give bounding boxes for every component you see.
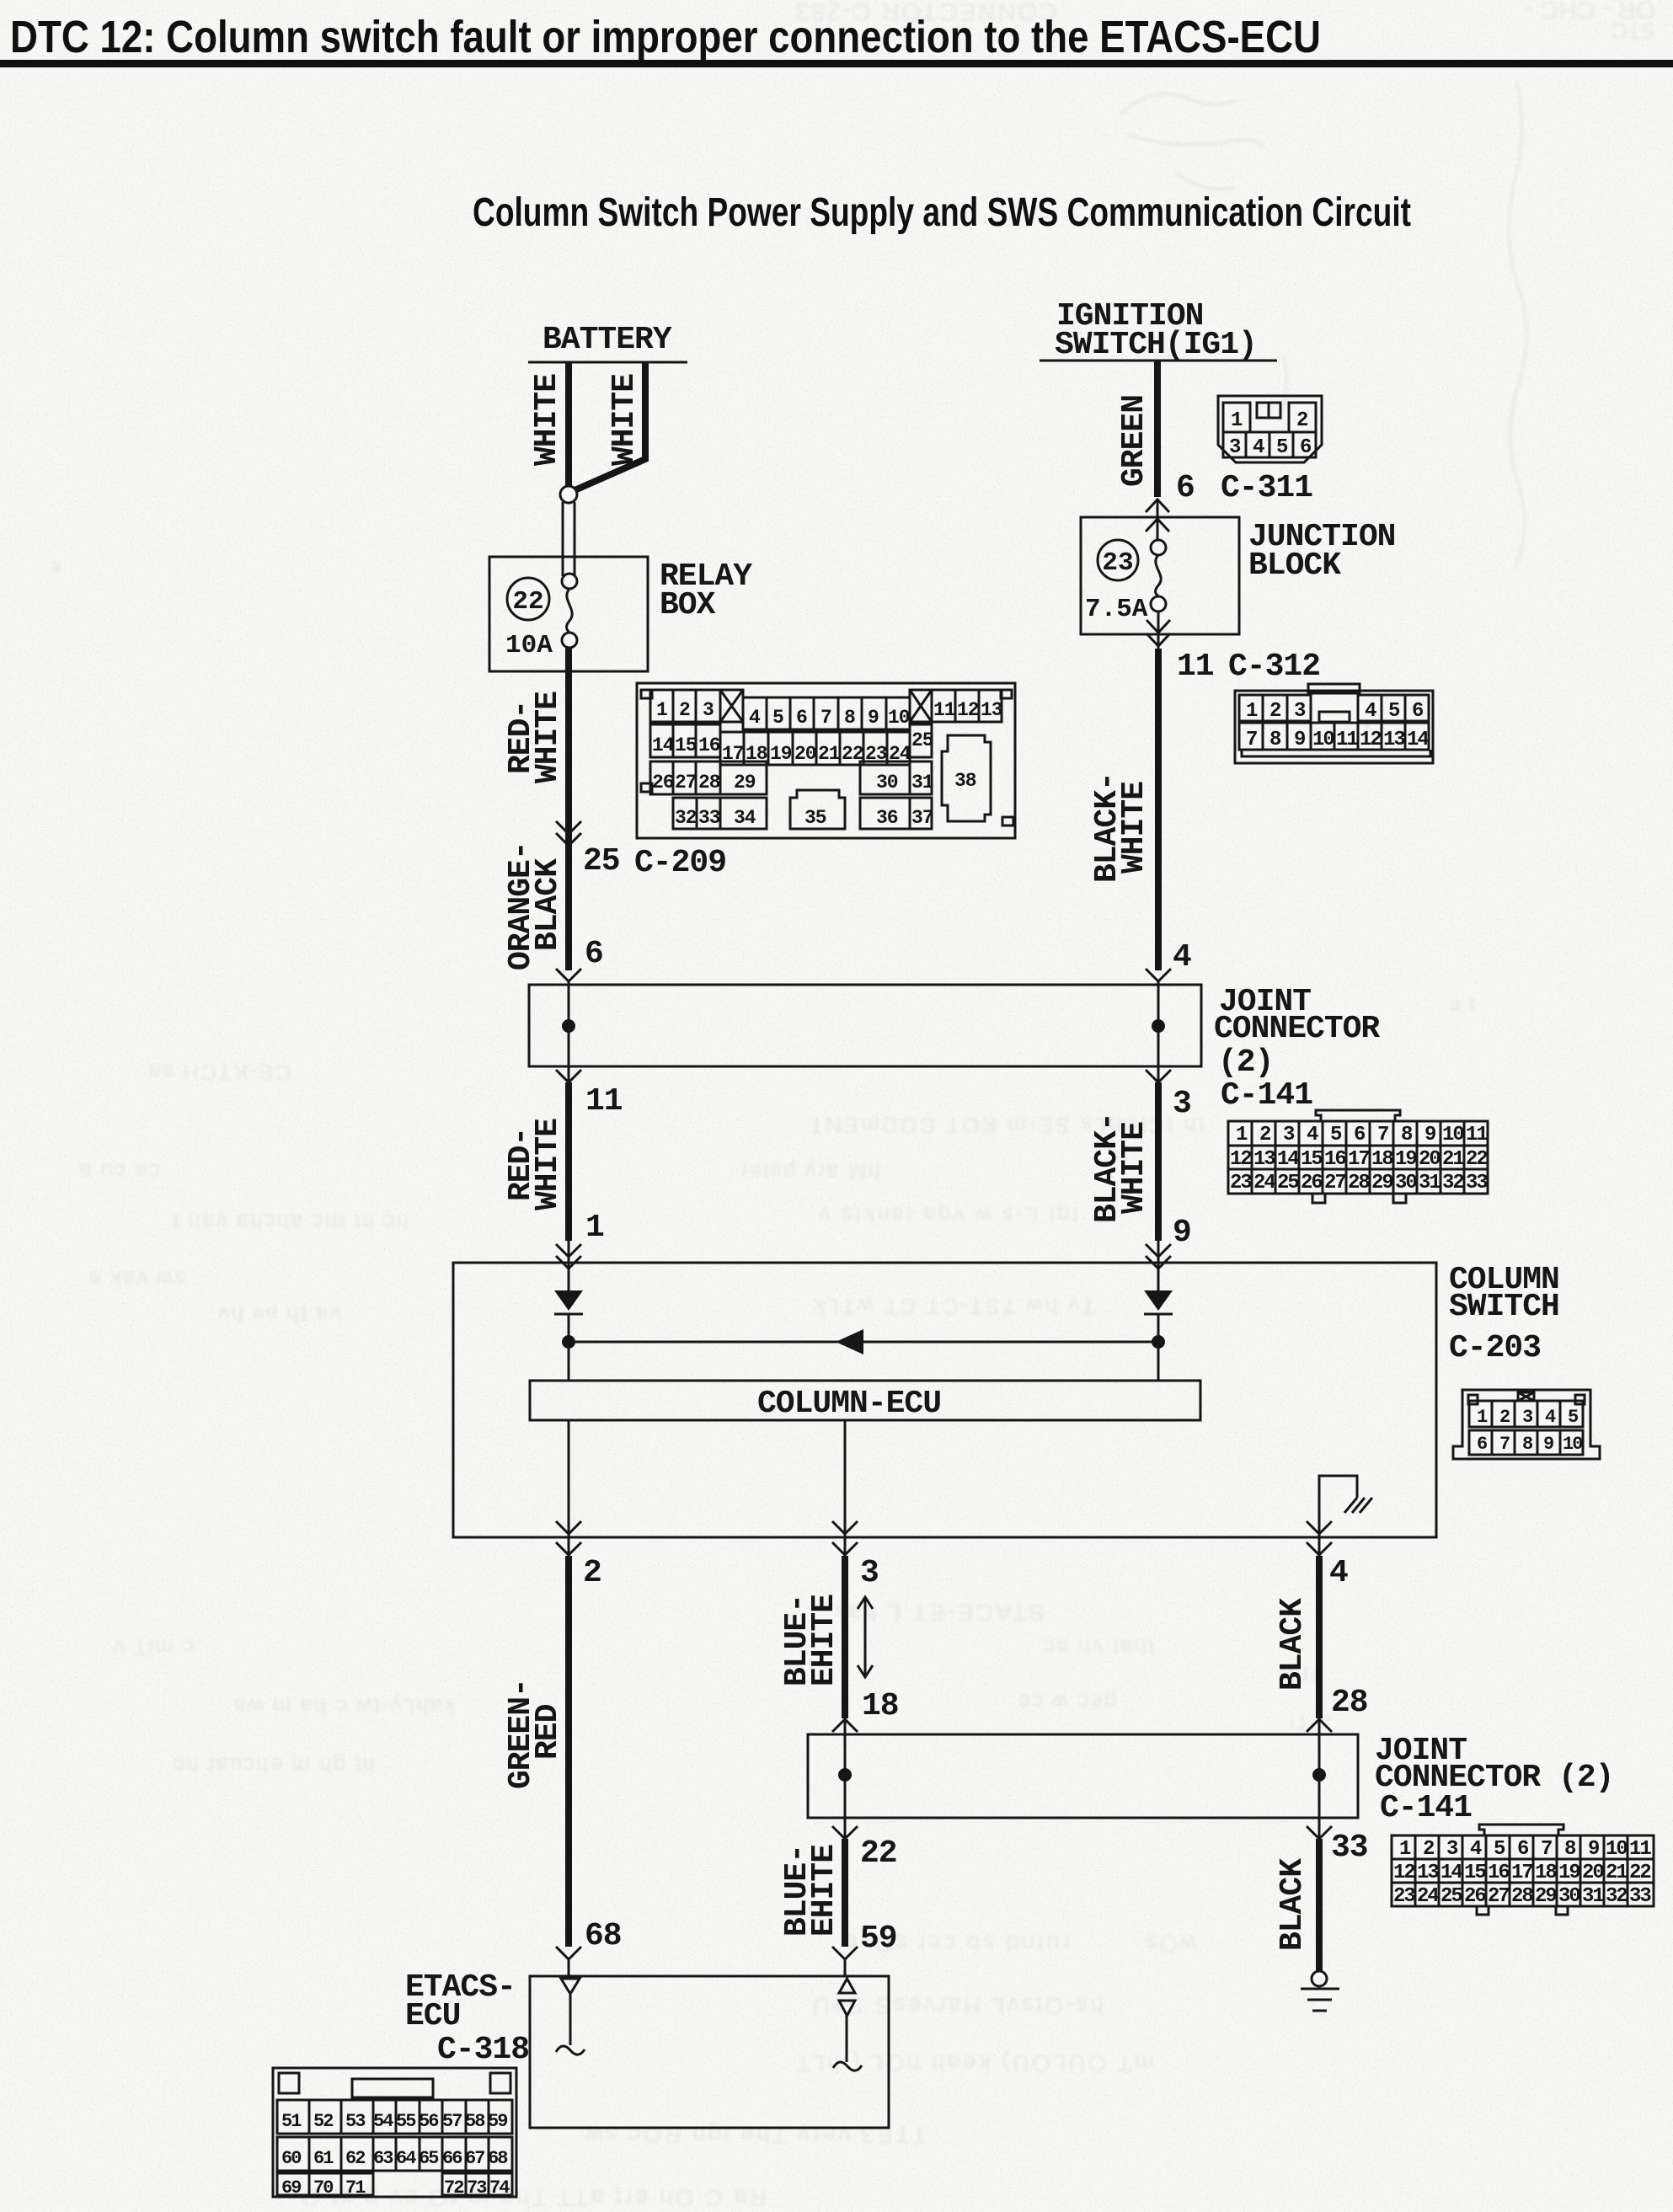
diode right [1144,1290,1173,1311]
svg-text:31: 31 [1582,1885,1604,1908]
svg-text:12: 12 [957,699,979,721]
svg-text:13: 13 [981,699,1002,721]
svg-text:3: 3 [1173,1086,1191,1122]
svg-text:STC: STC [1612,19,1655,44]
svg-text:11: 11 [1629,1838,1651,1861]
svg-text:2: 2 [583,1555,601,1591]
X box 2 [910,690,932,722]
svg-text:22: 22 [1629,1862,1650,1884]
svg-text:71: 71 [345,2177,366,2199]
svg-text:27: 27 [675,772,697,793]
svg-text:22: 22 [860,1835,897,1872]
svg-text:30: 30 [1395,1172,1417,1194]
junction dot left on bus [562,1335,575,1349]
junction dot [1312,1768,1326,1782]
svg-text:11: 11 [1177,649,1214,685]
svg-text:ECU: ECU [405,1998,460,2034]
fuse number circle 22 [507,578,549,620]
svg-text:69: 69 [281,2177,301,2199]
wire junction block to joint connector (BLACK-WHITE) [1155,649,1162,970]
svg-text:8: 8 [1401,1124,1413,1146]
svg-text:EHITE: EHITE [806,1595,842,1686]
svg-text:Column Switch Power Supply and: Column Switch Power Supply and SWS Commu… [473,190,1411,235]
svg-text:2: 2 [1259,1124,1270,1146]
svg-text:COLUMN-ECU: COLUMN-ECU [757,1386,941,1422]
connector C-311 pin diagram [1218,396,1322,462]
svg-text:RED: RED [530,1704,566,1760]
svg-text:c miT v: c miT v [112,1635,194,1660]
wire battery left (WHITE) [565,362,572,487]
svg-text:6: 6 [1176,470,1195,506]
fuse 23 wavy element [1156,555,1162,596]
svg-text:10A: 10A [505,631,553,660]
connector C-209 double chevron [556,821,581,846]
wire fuse to block bottom [1157,612,1160,650]
svg-text:6: 6 [1517,1838,1529,1861]
svg-text:8: 8 [1522,1434,1533,1455]
svg-text:70: 70 [313,2177,333,2199]
svg-text:7: 7 [1499,1434,1510,1455]
svg-text:CONNECTOR: CONNECTOR [1214,1011,1380,1047]
svg-text:1: 1 [1477,1407,1488,1428]
svg-text:2: 2 [1296,409,1307,432]
svg-text:a: a [51,555,63,578]
fuse 23 symbol top circle [1151,540,1166,555]
svg-text:va th av hv: va th av hv [216,1302,341,1328]
joint connector (2) box lower [808,1734,1358,1818]
direction arrow on bus [836,1329,863,1354]
ETACS-ECU box [530,1976,889,2128]
svg-text:28: 28 [1348,1172,1370,1194]
wire into diode left [568,1263,570,1291]
svg-text:6: 6 [1354,1124,1366,1146]
svg-text:C-209: C-209 [634,845,726,881]
svg-text:33: 33 [1331,1830,1368,1866]
svg-text:BATTERY: BATTERY [543,322,672,358]
svg-text:CE-KTCH sa: CE-KTCH sa [147,1060,291,1085]
row2 pins 17-24 (offset) [720,732,910,765]
svg-text:C-312: C-312 [1228,649,1320,685]
svg-text:8: 8 [844,707,855,729]
svg-text:10: 10 [1442,1124,1464,1146]
svg-text:14: 14 [1440,1862,1462,1884]
svg-text:18: 18 [1535,1862,1557,1884]
chevrons into column switch right [1146,1244,1171,1269]
connector C-312 pin diagram [1235,684,1433,763]
svg-text:6: 6 [585,936,603,972]
svg-text:26: 26 [1464,1885,1486,1908]
svg-text:7.5A: 7.5A [1085,595,1148,624]
wire relay box to C-209 (RED-WHITE) [565,648,572,846]
ground branch wire [1319,1476,1357,1537]
svg-text:55: 55 [396,2111,416,2132]
svg-text:14: 14 [1277,1148,1299,1171]
svg-text:5: 5 [1388,700,1400,723]
svg-text:DTC 12: Column switch fault or: DTC 12: Column switch fault or improper … [10,12,1321,62]
svg-text:sw vak e: sw vak e [87,1267,185,1292]
battery bus bar [528,361,687,364]
junction dot right on bus [1152,1335,1165,1349]
svg-text:10: 10 [1606,1838,1628,1861]
wire 22 to 59 (BLUE-EHITE) [842,1839,848,1947]
svg-text:9: 9 [1543,1434,1553,1455]
key tab [1319,712,1350,722]
svg-text:20: 20 [1582,1862,1604,1884]
svg-text:68: 68 [488,2148,508,2169]
svg-text:51: 51 [281,2111,302,2132]
svg-text:12: 12 [1360,729,1381,751]
svg-text:23: 23 [1230,1172,1252,1194]
wire through joint connector right [1157,985,1160,1066]
wire 33 to ground (BLACK) [1316,1839,1323,1971]
pin 34 box [720,798,767,829]
junction dot [838,1768,852,1782]
chevron below joint box 2 left [832,1826,858,1839]
pin 30 box [860,761,910,794]
svg-text:6: 6 [1412,700,1424,723]
earth ground symbol [1301,1989,1339,2011]
svg-text:5: 5 [1330,1124,1342,1146]
COLUMN-ECU box [530,1381,1200,1420]
wire C-209 to joint connector (ORANGE-BLACK) [565,846,572,970]
svg-text:28: 28 [698,772,720,793]
svg-text:27: 27 [1324,1172,1345,1194]
row1 pins 4-6 [1358,695,1429,721]
svg-text:18: 18 [862,1688,899,1724]
svg-text:52: 52 [313,2111,333,2132]
row1 pins 1-3 [650,690,673,722]
fuse 23 symbol bottom circle [1151,596,1166,612]
svg-text:32: 32 [675,807,697,829]
svg-text:32: 32 [1442,1172,1463,1194]
svg-text:C-141: C-141 [1380,1790,1472,1826]
svg-text:4: 4 [1329,1555,1348,1591]
svg-text:4: 4 [1365,700,1376,723]
chevrons at pin 4 exit [1307,1521,1332,1555]
connector C-141 pin diagram (first) [1228,1110,1488,1203]
svg-text:a t: a t [1449,993,1477,1016]
svg-text:3: 3 [1522,1407,1533,1428]
svg-text:30: 30 [876,772,898,793]
svg-text:18: 18 [1371,1148,1393,1171]
svg-text:59: 59 [488,2111,507,2132]
svg-text:BLOCK: BLOCK [1248,548,1341,584]
svg-text:14: 14 [652,735,675,756]
chevron into joint connector 2 right (up) [1307,1719,1332,1732]
svg-text:1: 1 [656,699,667,721]
bidirectional arrow [858,1597,873,1677]
svg-text:34: 34 [734,807,756,829]
svg-text:15: 15 [1301,1148,1323,1171]
svg-text:74: 74 [489,2177,510,2199]
svg-text:4: 4 [1173,939,1191,975]
svg-text:hs-OtsvL HarvesS SeU: hs-OtsvL HarvesS SeU [810,1993,1104,2019]
chevron below joint box 2 right [1307,1826,1332,1839]
svg-text:14: 14 [1407,729,1429,751]
svg-text:4: 4 [1470,1838,1482,1861]
svg-text:20: 20 [794,743,816,765]
svg-text:27: 27 [1488,1885,1509,1908]
svg-text:4: 4 [1253,436,1264,459]
svg-text:33: 33 [1629,1885,1651,1908]
svg-text:WHITE: WHITE [530,1119,566,1210]
svg-text:9: 9 [1294,729,1305,751]
junction dot left [562,1019,575,1033]
connector C-209 pin diagram [637,683,1015,838]
svg-text:19: 19 [1395,1148,1416,1171]
svg-text:4: 4 [1545,1407,1556,1428]
svg-text:7: 7 [820,707,831,729]
svg-text:15: 15 [675,735,697,756]
chevron into joint connector (right) [1146,969,1171,981]
svg-text:2: 2 [1499,1407,1510,1428]
svg-text:that vh ac: that vh ac [1042,1635,1154,1660]
svg-text:C-311: C-311 [1221,470,1312,506]
svg-text:73: 73 [467,2177,487,2199]
connector C-318 pin diagram [273,2068,516,2199]
fuse number circle 23 [1098,540,1138,580]
svg-text:5: 5 [1568,1407,1579,1428]
X box [720,690,743,722]
svg-text:53: 53 [345,2111,366,2132]
svg-text:29: 29 [1535,1885,1556,1908]
ignition bus bar [1040,360,1277,362]
wire ignition to junction block (GREEN) [1154,361,1161,497]
wire battery right (WHITE) with diagonal [573,362,645,491]
svg-text:6: 6 [1477,1434,1487,1455]
wire ECU to pin 2 [568,1420,570,1537]
svg-text:4: 4 [1307,1124,1318,1146]
joint connector (2) C-141 box [529,985,1201,1066]
svg-text:hc ht thc ahcha vah t: hc ht thc ahcha vah t [171,1210,409,1235]
svg-text:31: 31 [911,772,933,793]
inner bottom line [1242,750,1430,756]
svg-text:.: . [244,740,252,763]
row4 pins 32-33 [673,798,720,829]
svg-text:60: 60 [281,2148,301,2169]
pin 25 box [910,724,932,757]
svg-text:31: 31 [1419,1172,1440,1194]
svg-text:10: 10 [888,707,910,729]
svg-text:36: 36 [876,807,898,829]
svg-text:7: 7 [1246,729,1257,751]
svg-text:Tv hw TST-CT CT wTLk: Tv hw TST-CT CT wTLk [811,1294,1095,1319]
svg-text:58: 58 [465,2111,485,2132]
chassis ground symbol [1344,1498,1372,1513]
svg-text:19: 19 [1558,1862,1579,1884]
svg-text:SWITCH: SWITCH [1449,1289,1559,1325]
svg-text:9: 9 [1424,1124,1435,1146]
svg-text:7: 7 [1377,1124,1388,1146]
svg-text:29: 29 [1371,1172,1392,1194]
svg-text:8: 8 [1269,729,1281,751]
svg-text:TTE3 very The ign ROc sw: TTE3 very The ign ROc sw [583,2122,927,2148]
row1 pins 4-10 (offset) [743,697,910,729]
svg-text:BLACK: BLACK [530,858,566,951]
chevron into joint connector 2 (up) [832,1719,858,1732]
ETACS pin 68 symbol (female) [561,1979,580,1994]
svg-text:37: 37 [911,807,933,829]
svg-text:4: 4 [749,707,761,729]
svg-text:62: 62 [345,2148,365,2169]
svg-text:57: 57 [442,2111,462,2132]
chevron into joint connector [556,969,581,981]
ground terminal circle [1312,1971,1327,1986]
connector C-312 double chevron (down) [1147,620,1170,646]
diode left [554,1290,583,1311]
svg-text:61: 61 [313,2148,334,2169]
pin 31 box [910,761,932,794]
chevrons into column switch left [556,1244,581,1269]
svg-text:25: 25 [583,843,620,879]
svg-text:28: 28 [1511,1885,1533,1908]
svg-text:3: 3 [1294,700,1306,723]
svg-text:10: 10 [1563,1434,1582,1455]
wire ECU to pin 3 [844,1420,847,1537]
chevron into ETACS right [832,1947,858,1959]
svg-text:GREEN: GREEN [1116,395,1152,487]
svg-text:WHITE: WHITE [530,692,566,783]
svg-text:5: 5 [772,707,783,729]
svg-text:BLACK: BLACK [1275,1858,1311,1951]
svg-text:16: 16 [1324,1148,1346,1171]
svg-text:15: 15 [1464,1862,1486,1884]
svg-text:16: 16 [1488,1862,1510,1884]
svg-text:12: 12 [1393,1862,1414,1884]
row2 pins 14-16 [650,724,720,757]
svg-text:72: 72 [444,2177,463,2199]
svg-text:kahLy-tw c ha m wa: kahLy-tw c ha m wa [232,1694,455,1719]
connector C-311 double chevron (up) [1146,500,1169,532]
svg-text:5: 5 [1276,436,1288,459]
wire into diode right [1157,1263,1160,1291]
svg-text:65: 65 [419,2148,439,2169]
wire pin4 to joint connector (BLACK) [1316,1556,1323,1718]
row 60-68 [277,2137,512,2171]
svg-text:17: 17 [1348,1148,1369,1171]
svg-text:66: 66 [442,2148,462,2169]
svg-text:C-203: C-203 [1449,1330,1541,1366]
svg-text:56: 56 [419,2111,438,2132]
svg-text:5: 5 [1494,1838,1505,1861]
node junction circle above relay box [560,486,577,503]
svg-text:7: 7 [1541,1838,1552,1861]
svg-text:1: 1 [1236,1124,1248,1146]
wire joint to column switch (BLACK-WHITE) [1155,1082,1162,1241]
svg-text:11: 11 [1336,729,1358,751]
pin 37 box [910,798,932,829]
svg-text:1: 1 [1399,1838,1411,1861]
row2 pins 7-14 [1239,723,1429,750]
svg-text:25: 25 [1277,1172,1299,1194]
svg-text:21: 21 [818,743,840,765]
svg-text:22: 22 [512,587,543,617]
svg-text:2: 2 [1423,1838,1434,1861]
svg-text:1: 1 [585,1210,604,1246]
svg-text:33: 33 [1466,1172,1488,1194]
svg-text:21: 21 [1442,1148,1464,1171]
svg-text:16: 16 [698,735,720,756]
svg-text:29: 29 [734,772,756,793]
svg-text:22: 22 [1466,1148,1487,1171]
svg-text:67: 67 [465,2148,484,2169]
svg-text:BLACK: BLACK [1275,1598,1311,1691]
svg-text:11: 11 [933,699,955,721]
svg-text:26: 26 [652,772,674,793]
svg-text:6: 6 [796,707,807,729]
svg-text:ca cu a: ca cu a [78,1159,160,1184]
connector C-141 pin diagram (second) [1392,1825,1654,1915]
junction dot right [1152,1019,1165,1033]
ETACS pin 59 symbol (male pair) [839,1979,855,1993]
svg-text:SWITCH(IG1): SWITCH(IG1) [1055,327,1257,363]
chevron below joint box right [1146,1070,1171,1082]
svg-text:tqt L-s w vqa tankts v: tqt L-s w vqa tankts v [817,1203,1078,1228]
svg-text:3: 3 [1283,1124,1295,1146]
svg-text:63: 63 [373,2148,393,2169]
svg-text:3: 3 [860,1555,879,1591]
svg-text:EHITE: EHITE [806,1845,842,1937]
wire into fuse 23 [1157,522,1159,540]
svg-text:hM ary pster: hM ary pster [739,1159,881,1184]
svg-text:WHITE: WHITE [1116,782,1152,874]
svg-text:2: 2 [1269,700,1280,723]
row 51-59 [277,2100,512,2134]
column switch C-203 box [453,1263,1436,1537]
fuse 22 symbol top circle [562,574,577,589]
svg-text:23: 23 [1102,548,1133,578]
svg-text:17: 17 [1511,1862,1532,1884]
svg-text:11: 11 [585,1083,623,1119]
wire diode right to ECU [1157,1314,1160,1381]
svg-text:ht gh m ehcuat hc: ht gh m ehcuat hc [172,1753,375,1778]
row1 pins 1-3 [1239,695,1311,721]
svg-text:59: 59 [860,1921,897,1957]
connector C-203 pin diagram [1453,1390,1600,1459]
row 69-74 [277,2173,373,2195]
svg-text:9: 9 [1588,1838,1599,1861]
svg-text:12: 12 [1230,1148,1251,1171]
relay box outline [489,557,648,671]
wire through joint connector left [568,985,570,1066]
svg-text:3: 3 [1229,436,1241,459]
title underline rule [0,60,1673,67]
svg-text:24: 24 [1417,1885,1439,1908]
wire diode left to ECU [568,1314,570,1381]
svg-text:54: 54 [373,2111,393,2132]
svg-text:3: 3 [703,699,714,721]
svg-text:38: 38 [954,770,976,792]
fuse 22 wavy element [567,589,573,633]
svg-text:68: 68 [585,1918,622,1954]
svg-text:25: 25 [1440,1885,1462,1908]
svg-text:C-141: C-141 [1221,1077,1312,1114]
svg-text:WHITE: WHITE [1116,1122,1152,1214]
wire through joint box 2 left [844,1734,847,1818]
svg-text:32: 32 [1606,1885,1627,1908]
internal bus wire [569,1341,1158,1344]
chevron into ETACS left [556,1947,581,1959]
svg-text:wOs: wOs [1144,1931,1197,1957]
svg-text:23: 23 [1393,1885,1415,1908]
row1 pins 11-13 [932,690,1002,722]
svg-text:30: 30 [1558,1885,1580,1908]
svg-text:BOX: BOX [660,587,716,623]
svg-text:8: 8 [1564,1838,1576,1861]
svg-text:21: 21 [1606,1862,1628,1884]
svg-text:25: 25 [911,729,933,751]
wire through joint box 2 right [1318,1734,1321,1818]
